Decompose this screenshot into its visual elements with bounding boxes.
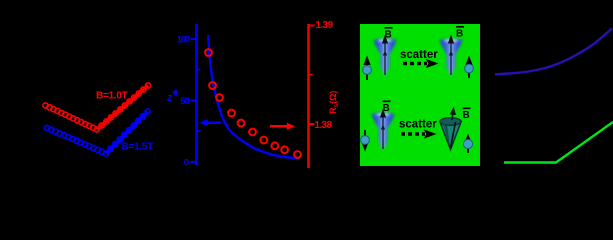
top-left small up spin arrow with electron (363, 56, 372, 81)
svg-text:100: 100 (177, 35, 190, 46)
arrow through bottom-left cone (382, 116, 384, 149)
dashed arrow (bottom) (401, 132, 425, 135)
label B bottom-right (463, 108, 471, 121)
svg-text:1.38: 1.38 (315, 120, 333, 131)
blue left y-axis (195, 24, 198, 165)
svg-text:B: B (385, 30, 392, 41)
dark blue rising curve (495, 29, 612, 75)
blue data series B=1.5T (V-shaped open circles) (44, 109, 150, 156)
minor tick (197, 130, 201, 132)
svg-text:scatter: scatter (399, 119, 437, 131)
major tick 0 (191, 161, 197, 163)
blue ascending branch line (106, 112, 148, 154)
svg-text:scatter: scatter (400, 49, 438, 61)
red arrow pointing to right axis (270, 125, 287, 128)
svg-text:z: z (166, 92, 173, 104)
top-left precession cone (373, 38, 397, 75)
svg-text:50: 50 (180, 96, 189, 107)
red ascending branch line (97, 86, 148, 130)
bottom-right small up spin arrow with electron (463, 134, 472, 154)
top-right precession cone (439, 38, 463, 75)
top-right small up spin arrow with electron (465, 56, 474, 79)
tilted arrow through wide cone (451, 122, 456, 148)
svg-text:0: 0 (184, 158, 189, 169)
green kinked line (504, 122, 613, 163)
label B top-right (456, 27, 464, 40)
svg-text:B=1.0T: B=1.0T (96, 91, 128, 102)
red data series B=1.0T (V-shaped open circles) (43, 83, 151, 132)
blue arrow pointing to left axis (206, 121, 221, 124)
bottom-left small down spin arrow with electron (361, 130, 370, 152)
svg-text:B: B (463, 110, 470, 121)
tick 1.39 (309, 25, 315, 27)
arrow through top-right cone (450, 42, 452, 75)
label B bottom-left (383, 101, 391, 114)
svg-text:B=1.5T: B=1.5T (122, 142, 154, 153)
tick 1.38 (309, 123, 315, 125)
bottom-left precession cone (371, 112, 395, 149)
blue decaying curve (208, 35, 300, 159)
dashed arrow (top) (403, 62, 427, 65)
red open-circle data series (middle) (205, 49, 301, 158)
svg-text:B: B (456, 29, 463, 40)
svg-text:B: B (383, 103, 390, 114)
red right y-axis (307, 24, 310, 168)
green panel background (360, 24, 480, 166)
bottom-right wide cone (440, 118, 461, 150)
label B top-left (385, 28, 393, 41)
major tick 100 (191, 38, 197, 40)
svg-text:1.39: 1.39 (316, 20, 334, 31)
minor tick red (309, 74, 313, 76)
arrow through top-left cone (384, 42, 386, 75)
major tick 50 (191, 100, 197, 102)
minor tick (197, 69, 201, 71)
